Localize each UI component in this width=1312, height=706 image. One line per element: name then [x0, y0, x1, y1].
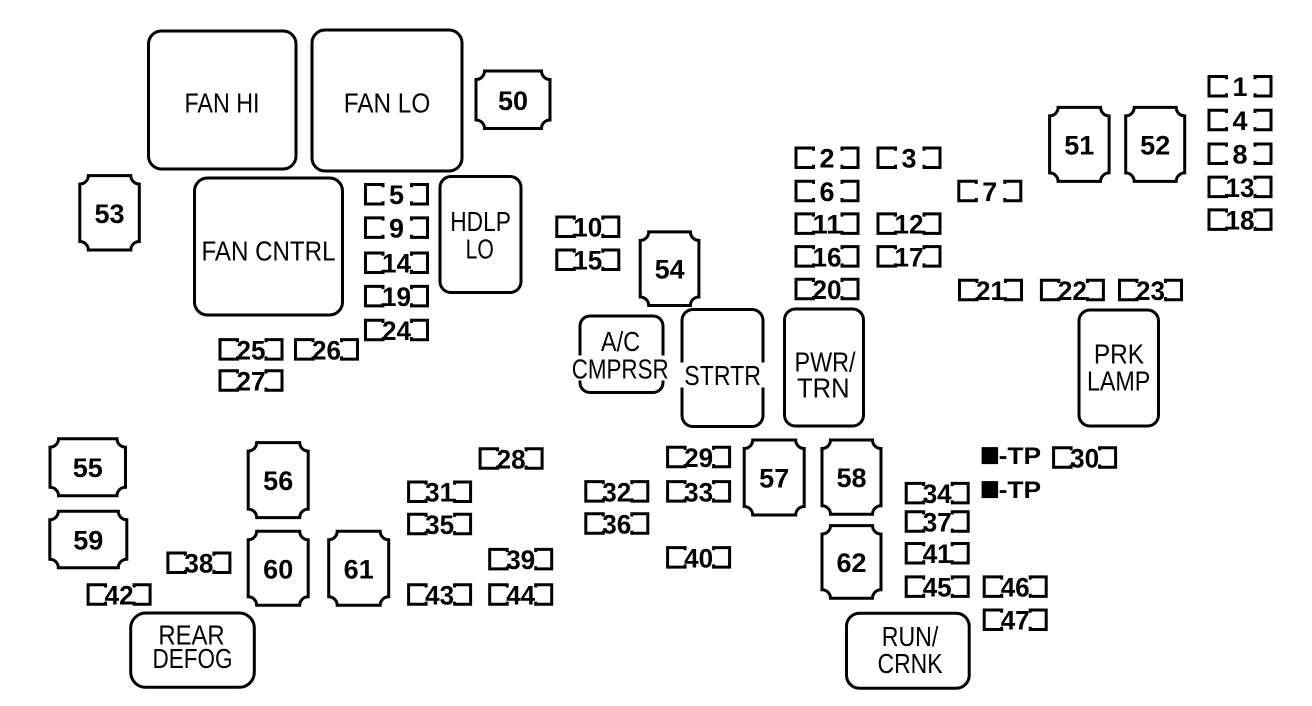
- fuse 31: [409, 478, 471, 508]
- relay 61: [329, 531, 389, 605]
- fuse 1: [1209, 72, 1271, 102]
- svg-text:17: 17: [895, 242, 924, 272]
- svg-text:55: 55: [73, 453, 103, 483]
- svg-text:4: 4: [1233, 106, 1248, 136]
- fuse 6: [796, 177, 858, 207]
- relay box A/C CMPRSR: [571, 316, 670, 393]
- relay 50: [476, 71, 550, 129]
- svg-text:56: 56: [263, 466, 293, 496]
- svg-text:57: 57: [759, 464, 789, 494]
- relay 59: [50, 511, 127, 567]
- fuse 33: [668, 477, 730, 507]
- fuse 27: [220, 367, 282, 397]
- fuse 5: [366, 180, 428, 210]
- svg-text:28: 28: [497, 444, 526, 474]
- fuse 32: [586, 477, 648, 507]
- fuse 39: [490, 545, 552, 575]
- relay box FAN HI: [149, 31, 297, 169]
- svg-text:44: 44: [506, 581, 535, 611]
- relay 60: [248, 531, 308, 605]
- svg-text:12: 12: [895, 210, 924, 240]
- fuse 10: [557, 213, 619, 243]
- relay 53: [80, 176, 140, 250]
- svg-text:9: 9: [389, 214, 404, 244]
- svg-text:CMPRSR: CMPRSR: [572, 353, 669, 384]
- svg-text:DEFOG: DEFOG: [153, 643, 233, 674]
- fuse 46: [984, 573, 1046, 603]
- svg-text:29: 29: [684, 443, 713, 473]
- fuse 4: [1209, 106, 1271, 136]
- svg-text:21: 21: [976, 276, 1005, 306]
- svg-text:58: 58: [836, 463, 866, 493]
- relay box STRTR: [680, 310, 765, 427]
- svg-text:11: 11: [813, 210, 842, 240]
- svg-text:CRNK: CRNK: [878, 648, 943, 679]
- svg-text:52: 52: [1140, 130, 1170, 160]
- fuse 40: [668, 543, 730, 573]
- fuse 44: [490, 581, 552, 611]
- fuse 18: [1209, 206, 1271, 236]
- fuse 22: [1041, 276, 1103, 306]
- relay 58: [822, 440, 881, 514]
- svg-text:1: 1: [1233, 72, 1248, 102]
- svg-text:19: 19: [382, 282, 411, 312]
- svg-text:LO: LO: [466, 234, 494, 265]
- svg-text:2: 2: [820, 144, 835, 174]
- fuse 41: [906, 539, 968, 569]
- svg-text:16: 16: [813, 242, 842, 272]
- relay 62: [822, 526, 881, 599]
- svg-text:50: 50: [498, 86, 528, 116]
- relay 51: [1050, 107, 1110, 181]
- svg-text:TRN: TRN: [797, 373, 850, 404]
- svg-text:34: 34: [923, 479, 952, 509]
- svg-text:5: 5: [389, 180, 404, 210]
- svg-text:13: 13: [1226, 173, 1255, 203]
- svg-text:18: 18: [1226, 206, 1255, 236]
- svg-text:43: 43: [425, 581, 454, 611]
- svg-text:31: 31: [425, 478, 454, 508]
- svg-text:53: 53: [94, 199, 124, 229]
- svg-text:14: 14: [382, 249, 411, 279]
- relay box REAR DEFOG: [131, 613, 255, 687]
- svg-text:LAMP: LAMP: [1087, 365, 1150, 396]
- fuse 38: [168, 549, 230, 579]
- fuse 29: [668, 443, 730, 473]
- fuse 16: [796, 242, 858, 272]
- fuse 35: [409, 510, 471, 540]
- svg-text:22: 22: [1058, 276, 1087, 306]
- svg-text:33: 33: [684, 477, 713, 507]
- svg-text:37: 37: [923, 508, 952, 538]
- relay box FAN CNTRL: [195, 178, 343, 315]
- test point TP2: [982, 477, 1042, 504]
- relay box PRK LAMP: [1079, 310, 1159, 426]
- fuse 34: [906, 479, 968, 509]
- svg-text:23: 23: [1136, 276, 1165, 306]
- fuse 30: [1054, 443, 1116, 473]
- fuse 25: [220, 335, 282, 365]
- fuse 47: [984, 606, 1046, 636]
- relay box HDLP LO: [440, 177, 521, 293]
- relay 56: [248, 443, 308, 518]
- fuse 28: [480, 444, 542, 474]
- fuse 26: [296, 335, 358, 365]
- svg-text:27: 27: [237, 367, 266, 397]
- svg-text:15: 15: [573, 246, 602, 276]
- svg-text:FAN CNTRL: FAN CNTRL: [202, 235, 336, 266]
- svg-text:-TP: -TP: [999, 443, 1042, 470]
- svg-text:51: 51: [1064, 130, 1094, 160]
- fuse 42: [88, 581, 150, 611]
- relay 54: [640, 232, 699, 306]
- svg-text:10: 10: [573, 213, 602, 243]
- svg-text:20: 20: [813, 275, 842, 305]
- svg-text:54: 54: [655, 255, 685, 285]
- svg-text:38: 38: [184, 549, 213, 579]
- svg-text:25: 25: [237, 335, 266, 365]
- fuse 8: [1209, 140, 1271, 170]
- fuse 15: [557, 246, 619, 276]
- relay box FAN LO: [312, 30, 462, 171]
- svg-text:7: 7: [982, 177, 997, 207]
- fuse 3: [878, 144, 940, 174]
- fuse 37: [906, 508, 968, 538]
- fuse 43: [409, 581, 471, 611]
- fuse 36: [586, 510, 648, 540]
- svg-text:6: 6: [820, 177, 835, 207]
- fuse 24: [366, 316, 428, 346]
- relay 55: [50, 439, 126, 496]
- svg-text:8: 8: [1233, 140, 1248, 170]
- svg-text:26: 26: [312, 335, 341, 365]
- fuse 23: [1120, 276, 1182, 306]
- svg-text:41: 41: [923, 539, 952, 569]
- svg-text:42: 42: [105, 581, 134, 611]
- fuse 21: [960, 276, 1022, 306]
- svg-text:45: 45: [923, 573, 952, 603]
- fuse 14: [366, 249, 428, 279]
- svg-text:39: 39: [506, 545, 535, 575]
- svg-text:36: 36: [602, 510, 631, 540]
- fuse 13: [1209, 173, 1271, 203]
- svg-text:HDLP: HDLP: [450, 206, 511, 237]
- relay box RUN/CRNK: [847, 613, 970, 688]
- relay 52: [1126, 107, 1185, 181]
- svg-text:FAN HI: FAN HI: [185, 88, 260, 119]
- svg-text:-TP: -TP: [999, 477, 1042, 504]
- fuse 12: [878, 210, 940, 240]
- svg-text:62: 62: [836, 548, 866, 578]
- svg-text:A/C: A/C: [601, 326, 640, 357]
- svg-text:3: 3: [902, 144, 917, 174]
- relay 57: [744, 440, 804, 515]
- svg-text:35: 35: [425, 510, 454, 540]
- fuse 7: [959, 177, 1021, 207]
- svg-text:24: 24: [382, 316, 411, 346]
- fuse 11: [796, 210, 858, 240]
- test point TP1: [982, 443, 1042, 470]
- fuse 2: [796, 144, 858, 174]
- svg-text:61: 61: [344, 554, 374, 584]
- svg-text:40: 40: [684, 543, 713, 573]
- svg-text:46: 46: [1001, 573, 1030, 603]
- fuse 19: [366, 282, 428, 312]
- svg-text:STRTR: STRTR: [684, 360, 761, 391]
- svg-text:47: 47: [1001, 606, 1030, 636]
- relay box PWR/TRN: [785, 309, 864, 426]
- svg-text:60: 60: [263, 554, 293, 584]
- fuse 9: [366, 214, 428, 244]
- svg-text:59: 59: [73, 526, 103, 556]
- svg-text:FAN LO: FAN LO: [344, 88, 431, 119]
- svg-text:32: 32: [602, 477, 631, 507]
- fuse 45: [906, 573, 968, 603]
- fuse 17: [878, 242, 940, 272]
- fuse 20: [796, 275, 858, 305]
- svg-text:30: 30: [1070, 443, 1099, 473]
